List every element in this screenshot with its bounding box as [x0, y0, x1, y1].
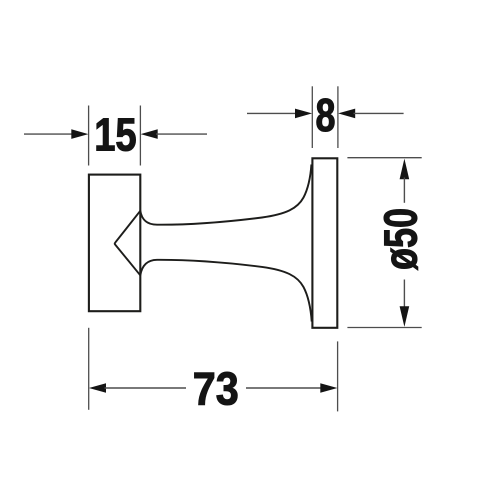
- dim o50: bottom arrow: [400, 306, 410, 327]
- svg-text:ø50: ø50: [375, 208, 427, 270]
- dim 73: right extension line: [337, 341, 339, 411]
- dim 15: right leader line: [156, 133, 207, 135]
- dim o50: top arrow: [400, 159, 410, 180]
- dim 8: right extension line: [337, 86, 339, 148]
- svg-text:15: 15: [94, 109, 137, 161]
- hook knob face (left rectangle): [89, 175, 140, 312]
- stem upper contour: [140, 165, 311, 225]
- dim 15: right arrow: [141, 129, 158, 139]
- dim 73: right arrow: [320, 383, 337, 393]
- dim 8: left leader line: [247, 112, 297, 114]
- dim 8: right arrow: [338, 109, 355, 119]
- dim 73: left arrow: [89, 383, 106, 393]
- dim 15: left leader line: [24, 133, 73, 135]
- svg-text:8: 8: [316, 89, 336, 141]
- dim 73: left line segment: [105, 387, 187, 389]
- dim 15: right extension line: [139, 106, 141, 166]
- dim 73: left extension line: [88, 328, 90, 410]
- dim o50: top extension line: [347, 157, 421, 159]
- wall plate (right rectangle): [312, 158, 337, 327]
- dim 15: left extension line: [88, 106, 90, 166]
- dim 8: left arrow: [295, 109, 312, 119]
- dim o50: lower line segment: [403, 280, 405, 309]
- stem lower contour: [140, 260, 311, 322]
- cone transition chevron: [115, 211, 141, 275]
- dim 8: right leader line: [354, 112, 404, 114]
- dim 73: right line segment: [246, 387, 322, 389]
- dim 8: left extension line: [311, 86, 313, 148]
- dim 15: left arrow: [71, 129, 88, 139]
- dim o50: bottom extension line: [347, 327, 421, 329]
- dim o50: upper line segment: [403, 178, 405, 203]
- svg-text:73: 73: [193, 363, 239, 415]
